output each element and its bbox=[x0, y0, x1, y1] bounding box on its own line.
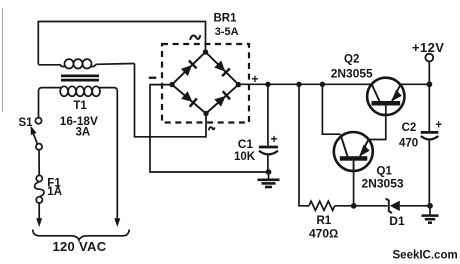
svg-text:2N3055: 2N3055 bbox=[331, 67, 373, 81]
junction node: C1 top on + rail bbox=[265, 82, 270, 87]
wire: S1 to F1 bbox=[38, 150, 40, 175]
+12V output terminal bbox=[412, 40, 444, 85]
polarity marks bbox=[149, 77, 157, 79]
wire: Q1 collector to + rail bbox=[322, 84, 340, 134]
svg-text:470Ω: 470Ω bbox=[309, 226, 338, 240]
wire: Q1 base lead bbox=[353, 161, 355, 206]
BR1 diode (lower-left) bbox=[181, 91, 197, 107]
svg-text:D1: D1 bbox=[389, 214, 405, 228]
transistor Q2 2N3055 bbox=[331, 54, 405, 115]
BR1 diode (upper-left) bbox=[181, 60, 197, 76]
BR1 diode (upper-right) bbox=[214, 60, 230, 76]
junction node: Q1 base on bias rail bbox=[351, 203, 357, 209]
ground (below C1) bbox=[258, 172, 280, 187]
svg-text:R1: R1 bbox=[317, 215, 332, 227]
fuse F1 1A bbox=[35, 175, 62, 203]
ground (output common) bbox=[422, 206, 439, 223]
junction node: +12V line on emitter rail bbox=[427, 81, 433, 87]
120 VAC source brace and label bbox=[33, 230, 130, 255]
svg-text:120 VAC: 120 VAC bbox=[53, 239, 107, 254]
wire: top AC lead from T1 secondary to BR1 top input bbox=[38, 22, 205, 65]
wire: T1 primary return 120VAC terminal (arrow) bbox=[114, 218, 120, 227]
switch S1 bbox=[19, 117, 43, 150]
AC tilde marks bbox=[190, 35, 200, 40]
secondary winding (3 loops) bbox=[38, 65, 65, 67]
svg-text:SeekIC.com: SeekIC.com bbox=[393, 249, 458, 261]
svg-text:2N3053: 2N3053 bbox=[362, 177, 404, 191]
svg-text:+12V: +12V bbox=[412, 40, 444, 55]
svg-text:+: + bbox=[271, 132, 278, 146]
svg-text:C2: C2 bbox=[402, 122, 417, 134]
bridge rectifier BR1 bbox=[149, 13, 259, 131]
wire: R1 to D1 (Q1 base node) bbox=[335, 205, 388, 207]
core bbox=[61, 75, 99, 78]
wire: F1 to 120VAC terminal (arrow) bbox=[38, 203, 40, 219]
svg-text:S1: S1 bbox=[19, 117, 34, 129]
junction dots at bridge vertices bbox=[203, 49, 208, 54]
svg-text:C1: C1 bbox=[238, 137, 254, 151]
wire: + rail to R1 bbox=[299, 84, 309, 206]
svg-text:10K: 10K bbox=[234, 151, 256, 163]
capacitor C1 10K bbox=[234, 84, 278, 172]
svg-text:+: + bbox=[435, 119, 442, 131]
wire: T1 secondary bottom lead to BR1 bottom input bbox=[135, 64, 207, 137]
svg-text:BR1: BR1 bbox=[214, 13, 238, 25]
junction node: C1 bottom on ground rail bbox=[266, 169, 272, 175]
junction node: C2/D1 ground junction bbox=[427, 203, 433, 209]
junction node: Q1 collector on + rail bbox=[320, 82, 325, 87]
svg-text:T1: T1 bbox=[73, 100, 87, 112]
wire: D1 to ground node bbox=[400, 205, 430, 207]
wire: BR1 negative output to ground rail bbox=[150, 85, 269, 172]
wire: Q2 emitter to +12V output bbox=[400, 83, 430, 85]
wire: Q1 emitter to Q2 base bbox=[368, 115, 386, 140]
wire: positive DC rail bbox=[239, 83, 372, 85]
zener diode D1 bbox=[386, 199, 405, 228]
svg-text:Q2: Q2 bbox=[344, 54, 359, 66]
svg-text:3A: 3A bbox=[76, 127, 91, 139]
resistor R1 470 ohm bbox=[309, 201, 338, 240]
svg-text:Q1: Q1 bbox=[377, 165, 393, 177]
transistor Q1 2N3053 bbox=[334, 132, 404, 191]
transformer T1 bbox=[38, 59, 134, 218]
svg-text:1A: 1A bbox=[47, 186, 62, 198]
BR1 diode (lower-right) bbox=[214, 91, 230, 107]
svg-text:470: 470 bbox=[399, 137, 418, 149]
capacitor C2 470 bbox=[399, 84, 442, 206]
junction node: R1 feed on + rail bbox=[296, 82, 301, 87]
svg-text:3-5A: 3-5A bbox=[215, 26, 239, 38]
primary winding (5 loops) bbox=[39, 88, 62, 118]
